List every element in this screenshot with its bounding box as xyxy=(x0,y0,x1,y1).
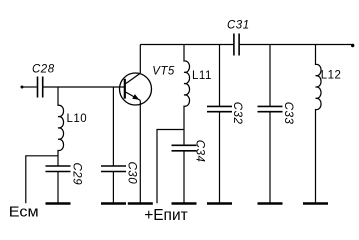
ground under C30 xyxy=(101,202,126,205)
wire input to C28 xyxy=(22,86,37,88)
capacitor C33 xyxy=(258,102,295,203)
svg-text:+Епит: +Епит xyxy=(144,207,188,221)
inductor L10 xyxy=(58,87,87,166)
svg-text:C29: C29 xyxy=(71,163,83,186)
transistor VT5 xyxy=(120,65,175,105)
ground under C34 xyxy=(172,202,197,205)
wire top bus right (C31 to output) xyxy=(240,44,354,46)
svg-text:L10: L10 xyxy=(67,113,88,125)
capacitor C31 xyxy=(227,19,250,55)
wire collector up xyxy=(139,45,141,74)
svg-text:L12: L12 xyxy=(321,69,342,81)
ground under C29 xyxy=(46,202,71,205)
svg-text:C32: C32 xyxy=(231,102,243,125)
svg-text:VT5: VT5 xyxy=(152,65,175,77)
ground under L12 xyxy=(303,202,328,205)
wire C28 to base of VT5 xyxy=(44,86,125,88)
ground under C32 xyxy=(207,202,232,205)
svg-text:Есм: Есм xyxy=(9,205,39,221)
svg-text:L11: L11 xyxy=(192,70,212,82)
capacitor C29 xyxy=(46,163,83,204)
ground under emitter xyxy=(128,202,153,205)
svg-text:C34: C34 xyxy=(193,140,205,163)
ground under C33 xyxy=(258,202,283,205)
capacitor C30 xyxy=(101,162,138,204)
svg-text:C33: C33 xyxy=(282,102,294,125)
wire emitter down xyxy=(139,100,141,203)
capacitor C28 xyxy=(32,63,55,97)
node input terminal dot xyxy=(21,86,24,89)
inductor L12 xyxy=(316,45,342,204)
wire +Епит branch xyxy=(157,130,184,204)
svg-text:C30: C30 xyxy=(126,162,138,185)
inductor L11 xyxy=(184,45,212,146)
wire L10/C29 junction to Есм branch xyxy=(26,156,58,204)
svg-text:C31: C31 xyxy=(227,19,250,31)
wire bus to C33 xyxy=(269,45,271,107)
capacitor C34 xyxy=(172,140,206,203)
svg-text:C28: C28 xyxy=(32,63,55,75)
wire bus to C32 xyxy=(219,45,221,107)
capacitor C32 xyxy=(207,102,243,203)
node output terminal dot xyxy=(351,44,354,47)
wire base junction to C30 xyxy=(112,87,114,166)
wire top bus left (collector to C31) xyxy=(140,44,233,46)
